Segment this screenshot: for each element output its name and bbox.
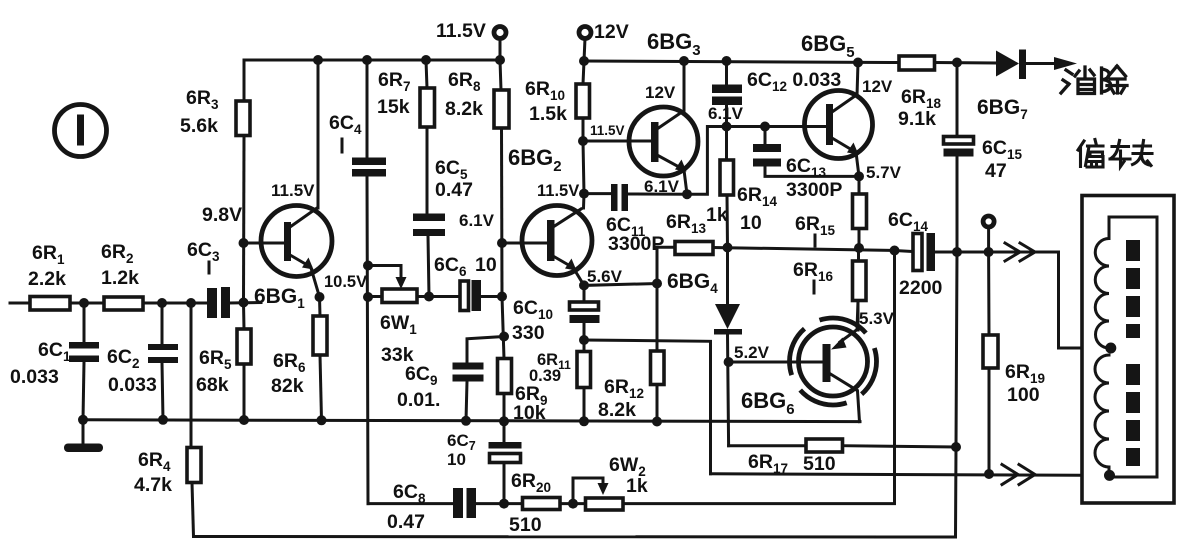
feedback line 6R13 row: [657, 246, 675, 249]
resistor 6R10: [576, 61, 590, 141]
capacitor 6C12: [712, 61, 742, 160]
wire 6R13 to riser x894: [713, 248, 895, 251]
wire emitter line to 6W1: [368, 295, 382, 298]
label bias (Chinese: pian zhuan): [1078, 140, 1152, 168]
supply rail 11.5V (left top rail): [244, 59, 500, 62]
svg-text:6.1V: 6.1V: [459, 211, 495, 230]
resistor 6R13: [675, 242, 713, 255]
capacitor 6C10: [570, 285, 600, 340]
capacitor 6C13: [753, 127, 859, 177]
svg-text:1.2k: 1.2k: [101, 267, 139, 289]
node head bottom: [1104, 470, 1115, 481]
node x955/6R17: [951, 442, 961, 452]
node 6C13 tap: [760, 122, 770, 132]
node rail 6C9: [461, 416, 471, 426]
svg-text:0.033: 0.033: [108, 374, 157, 396]
node 6BG2 base line lower: [497, 292, 507, 302]
node 12V line / 6R10: [579, 56, 589, 66]
node rail 6R9/6C7: [499, 416, 509, 426]
wire 6R20 to 6W2: [560, 502, 586, 505]
diode 6BG4: [714, 248, 742, 446]
resistor 6R11: [577, 340, 591, 421]
node wiper tap: [363, 261, 373, 271]
node 6C5/6W1 line: [424, 292, 434, 302]
node riser x894: [890, 246, 900, 256]
transistor 6BG5: [805, 91, 873, 177]
transistor 6BG6 (shielded): [790, 301, 877, 422]
capacitor 6C9: [453, 337, 505, 421]
node 6W2 wiper tap: [568, 499, 578, 509]
node 6C15 tap: [952, 58, 962, 68]
node rail 6R11: [579, 416, 589, 426]
wire 6R4 to bottom rail: [192, 483, 194, 537]
node emitter line x368: [363, 292, 373, 302]
resistor 6R6: [313, 297, 327, 420]
node rail 6R12: [652, 417, 662, 427]
resistor 6R18: [899, 56, 935, 70]
svg-text:12V: 12V: [645, 83, 676, 102]
svg-text:6BG7: 6BG7: [977, 96, 1028, 122]
svg-text:6.1V: 6.1V: [644, 177, 680, 196]
node 6C11/collector: [579, 189, 589, 199]
node rail 6R6: [317, 415, 327, 425]
svg-text:10: 10: [475, 254, 497, 276]
terminal head top: [983, 216, 994, 252]
node 6BG2 emitter: [579, 280, 589, 290]
node 6C4 rail: [362, 55, 372, 65]
svg-text:11.5V: 11.5V: [271, 181, 315, 200]
wire 6BG5 collector: [857, 63, 858, 97]
diode 6BG7: [996, 50, 1077, 80]
label erase output (Chinese: xiao chu): [1061, 66, 1127, 94]
node 6BG3 emitter: [682, 189, 692, 199]
terminal 12V: [579, 27, 591, 62]
svg-text:1k: 1k: [706, 204, 728, 226]
capacitor 6C2: [148, 303, 178, 420]
svg-text:8.2k: 8.2k: [598, 399, 636, 421]
svg-text:12V: 12V: [862, 77, 893, 96]
capacitor 6C7: [489, 421, 522, 503]
wire 6R10 node down to 6C11 node: [583, 141, 584, 194]
transistor 6BG1: [244, 206, 333, 298]
wire 6C3 to 6BG1 base node: [229, 301, 261, 305]
node input/6C1: [79, 298, 89, 308]
node rail 6R5: [239, 415, 249, 425]
node 6C3/6R5: [239, 298, 249, 308]
node 6C10 bottom: [579, 335, 589, 345]
wire x955 riser down: [956, 252, 958, 537]
wire 6R3 to base node: [242, 136, 246, 303]
svg-text:8.2k: 8.2k: [445, 98, 483, 120]
capacitor 6C8: [453, 488, 523, 518]
wire 6R17 to x955: [843, 446, 957, 447]
wire 6R13 node down to 6R12 branch: [656, 247, 659, 283]
wire emitter to 6BG4 branch: [584, 284, 657, 286]
wire head line right: [957, 252, 1111, 348]
svg-text:5.6k: 5.6k: [180, 115, 218, 137]
svg-text:6.1V: 6.1V: [708, 104, 744, 123]
resistor 6R12: [651, 284, 665, 422]
value tick 1 (6R15): [814, 235, 817, 246]
svg-text:3300P: 3300P: [786, 179, 842, 201]
node 6R4 tap: [186, 298, 196, 308]
node rail 6BG3 collector: [679, 56, 689, 66]
node 6BG1 emitter: [315, 292, 325, 302]
svg-text:510: 510: [803, 453, 836, 475]
head winding lower: [1095, 355, 1109, 467]
node 6R7 rail: [421, 55, 431, 65]
node 6BG5 emitter / 6C13: [854, 171, 864, 181]
svg-text:15k: 15k: [377, 96, 410, 118]
capacitor 6C4: [352, 60, 386, 504]
node 6R19 top: [984, 247, 994, 257]
capacitor 6C1: [69, 303, 99, 420]
value tick 1 (6C4): [341, 139, 344, 152]
node rail 6C2: [158, 415, 168, 425]
svg-text:5.7V: 5.7V: [866, 163, 902, 182]
node 6BG2 base: [497, 238, 507, 248]
capacitor 6C14: [895, 233, 958, 271]
wire head bottom lead: [711, 474, 1110, 476]
svg-text:11.5V: 11.5V: [537, 182, 579, 200]
supply rail 12V (right top rail): [584, 61, 899, 63]
node head centre tap: [1105, 343, 1116, 354]
node 6R14/diode: [723, 243, 733, 253]
wire base 6BG6: [729, 361, 823, 364]
potentiometer 6W1: [368, 266, 417, 303]
terminal 11.5V: [494, 27, 506, 61]
node 6R15 bottom: [854, 243, 864, 253]
resistor 6R16: [853, 248, 867, 330]
node 6C12 bottom / base line: [722, 122, 732, 132]
svg-text:12V: 12V: [594, 21, 629, 43]
svg-text:330: 330: [512, 322, 545, 344]
node 6C9 tap: [499, 332, 509, 342]
wire feedback from 6C10 node: [584, 340, 711, 474]
resistor 6R3: [236, 101, 250, 136]
node 6C7/6C8: [499, 499, 509, 509]
node rail 6C12: [722, 56, 732, 66]
svg-text:11.5V: 11.5V: [436, 20, 486, 42]
svg-text:0.01.: 0.01.: [397, 389, 440, 411]
wire 6C8 line left: [368, 502, 454, 505]
node 6R2/6C2: [157, 298, 167, 308]
svg-text:1k: 1k: [626, 475, 648, 497]
svg-text:5.3V: 5.3V: [859, 309, 895, 328]
resistor 6R14: [720, 160, 734, 248]
svg-text:1.5k: 1.5k: [529, 103, 567, 125]
wire base line to 6BG5: [727, 125, 827, 128]
node 5.6V branch: [652, 279, 662, 289]
svg-text:5.2V: 5.2V: [734, 343, 770, 362]
erase head outer case: [1082, 196, 1174, 504]
head winding upper: [1095, 239, 1109, 349]
node 6R19 bottom: [984, 469, 994, 479]
resistor 6R1: [30, 297, 70, 311]
svg-text:11.5V: 11.5V: [590, 123, 625, 138]
svg-text:10.5V: 10.5V: [324, 273, 367, 291]
svg-text:68k: 68k: [196, 374, 229, 396]
head core laminations: [1126, 240, 1140, 466]
wire 6R17 row: [729, 444, 806, 447]
head inner frame: [1109, 217, 1157, 477]
transistor 6BG2: [502, 194, 592, 286]
node collector rail: [313, 55, 323, 65]
svg-text:4.7k: 4.7k: [134, 474, 172, 496]
main ground rail: [83, 420, 860, 422]
value tick 1 (6R16): [813, 281, 816, 293]
svg-text:47: 47: [985, 160, 1007, 182]
svg-text:9.8V: 9.8V: [202, 204, 242, 226]
svg-text:10: 10: [447, 450, 466, 469]
bottom rail: [194, 535, 956, 539]
svg-text:0.47: 0.47: [387, 511, 425, 533]
chevron arrows (head top lead): [1005, 243, 1035, 261]
transistor 6BG3: [583, 107, 698, 194]
resistor 6R17: [806, 439, 843, 452]
node x955 head line: [952, 247, 962, 257]
input wire: [10, 302, 208, 305]
svg-text:9.1k: 9.1k: [898, 108, 936, 130]
svg-text:0.39: 0.39: [529, 367, 561, 385]
wire 6R18 to diode: [935, 61, 997, 65]
svg-text:82k: 82k: [271, 375, 304, 397]
wire 6R3 branch: [243, 60, 246, 101]
svg-text:2200: 2200: [899, 277, 943, 299]
resistor 6R8: [494, 60, 509, 297]
svg-text:0.47: 0.47: [435, 179, 473, 201]
resistor 6R15: [853, 176, 867, 248]
svg-text:2.2k: 2.2k: [28, 268, 66, 290]
ground symbol: [64, 420, 103, 452]
wire 6R4 from input: [190, 303, 193, 448]
resistor 6R9: [498, 359, 512, 422]
capacitor 6C3: [207, 287, 230, 318]
wire 6W2 right to x894 riser: [623, 251, 895, 504]
node 6R8 rail / terminal: [495, 55, 505, 65]
node 6BG3 base tap: [578, 136, 588, 146]
resistor 6R5: [237, 303, 251, 421]
chevron arrows (head bottom lead): [1002, 465, 1035, 485]
wire 6BG1 collector to rail: [317, 60, 320, 208]
capacitor 6C5: [413, 127, 445, 297]
capacitor 6C11: [584, 184, 687, 211]
resistor 6R4: [187, 448, 201, 483]
resistor 6R19: [983, 252, 998, 474]
node 6BG1 base: [239, 238, 249, 248]
resistor 6R2: [104, 297, 143, 310]
svg-text:0.033: 0.033: [10, 366, 59, 388]
capacitor 6C6: [460, 280, 502, 311]
wire emitter to riser x707: [687, 127, 727, 195]
node rail 6C1: [78, 415, 88, 425]
resistor 6R7: [420, 60, 435, 127]
svg-text:10: 10: [740, 212, 762, 234]
svg-text:510: 510: [509, 514, 542, 536]
node 5.2V: [724, 357, 734, 367]
wire 6BG3 collector: [683, 61, 686, 112]
figure mark circled I: [55, 105, 107, 157]
node rail 6BG5 collector: [853, 58, 863, 68]
svg-text:100: 100: [1007, 384, 1040, 406]
potentiometer 6W2: [573, 478, 623, 510]
wire base node to 6C9/6R9: [502, 297, 504, 359]
resistor 6R20: [523, 498, 561, 510]
value tick 1 (6C3): [208, 262, 211, 273]
wire 6W1 to 6C6: [417, 295, 460, 298]
capacitor 6C15: [944, 63, 974, 253]
